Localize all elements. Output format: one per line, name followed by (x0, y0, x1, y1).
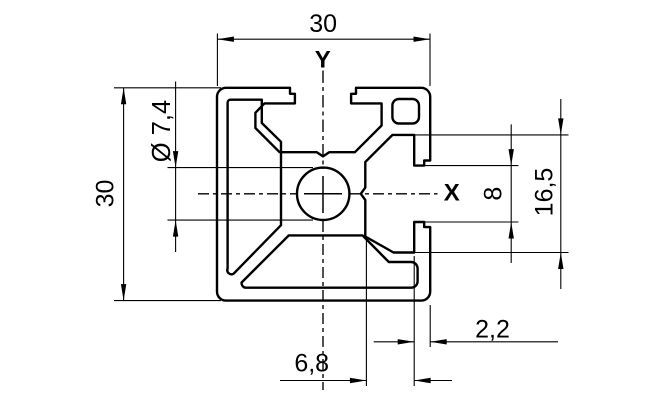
center lines (dash-dot) (198, 71, 438, 391)
outer contour with top slot and right slot (217, 88, 430, 301)
svg-text:Y: Y (315, 47, 331, 74)
corner screw channel hole (392, 99, 419, 124)
left 30 arrows (121, 88, 126, 105)
svg-text:6,8: 6,8 (294, 350, 329, 378)
arrow heads (121, 37, 564, 384)
svg-text:X: X (444, 180, 460, 207)
svg-text:16,5: 16,5 (531, 168, 559, 217)
6.8 dimension (365, 240, 367, 386)
dia 7.4 dimension (175, 82, 177, 253)
X axis dashed (198, 193, 296, 195)
16.5 dimension (415, 134, 569, 136)
svg-text:2,2: 2,2 (475, 316, 510, 344)
8 arrows (outside) (509, 149, 514, 166)
central bore circle (d = 7.4) (297, 168, 349, 220)
bottom cavity (closed void behind bottom wall, with right arm) (242, 235, 418, 287)
svg-text:30: 30 (92, 180, 120, 208)
profile outline (30x30 extrusion cross-section) (217, 88, 430, 301)
16.5 arrows (outside) (558, 118, 563, 134)
left cavity (closed void behind left wall) (227, 100, 281, 275)
dimension texts (92, 10, 559, 378)
8 dimension (right slot opening) (424, 165, 518, 167)
6.8 arrows (outside) (350, 378, 367, 383)
dia 7.4 arrows (outside) (173, 151, 178, 168)
svg-text:30: 30 (309, 10, 337, 38)
top 30 arrows (217, 37, 234, 42)
left 30 dimension (114, 87, 221, 89)
top 30 dimension (216, 34, 218, 87)
Y axis dashed (322, 71, 324, 170)
thin dimension / extension lines (114, 34, 569, 387)
2.2 arrows (outside) (398, 339, 415, 344)
svg-text:Ø 7,4: Ø 7,4 (148, 100, 176, 162)
svg-text:8: 8 (480, 187, 508, 201)
2.2 dimension (413, 256, 415, 386)
